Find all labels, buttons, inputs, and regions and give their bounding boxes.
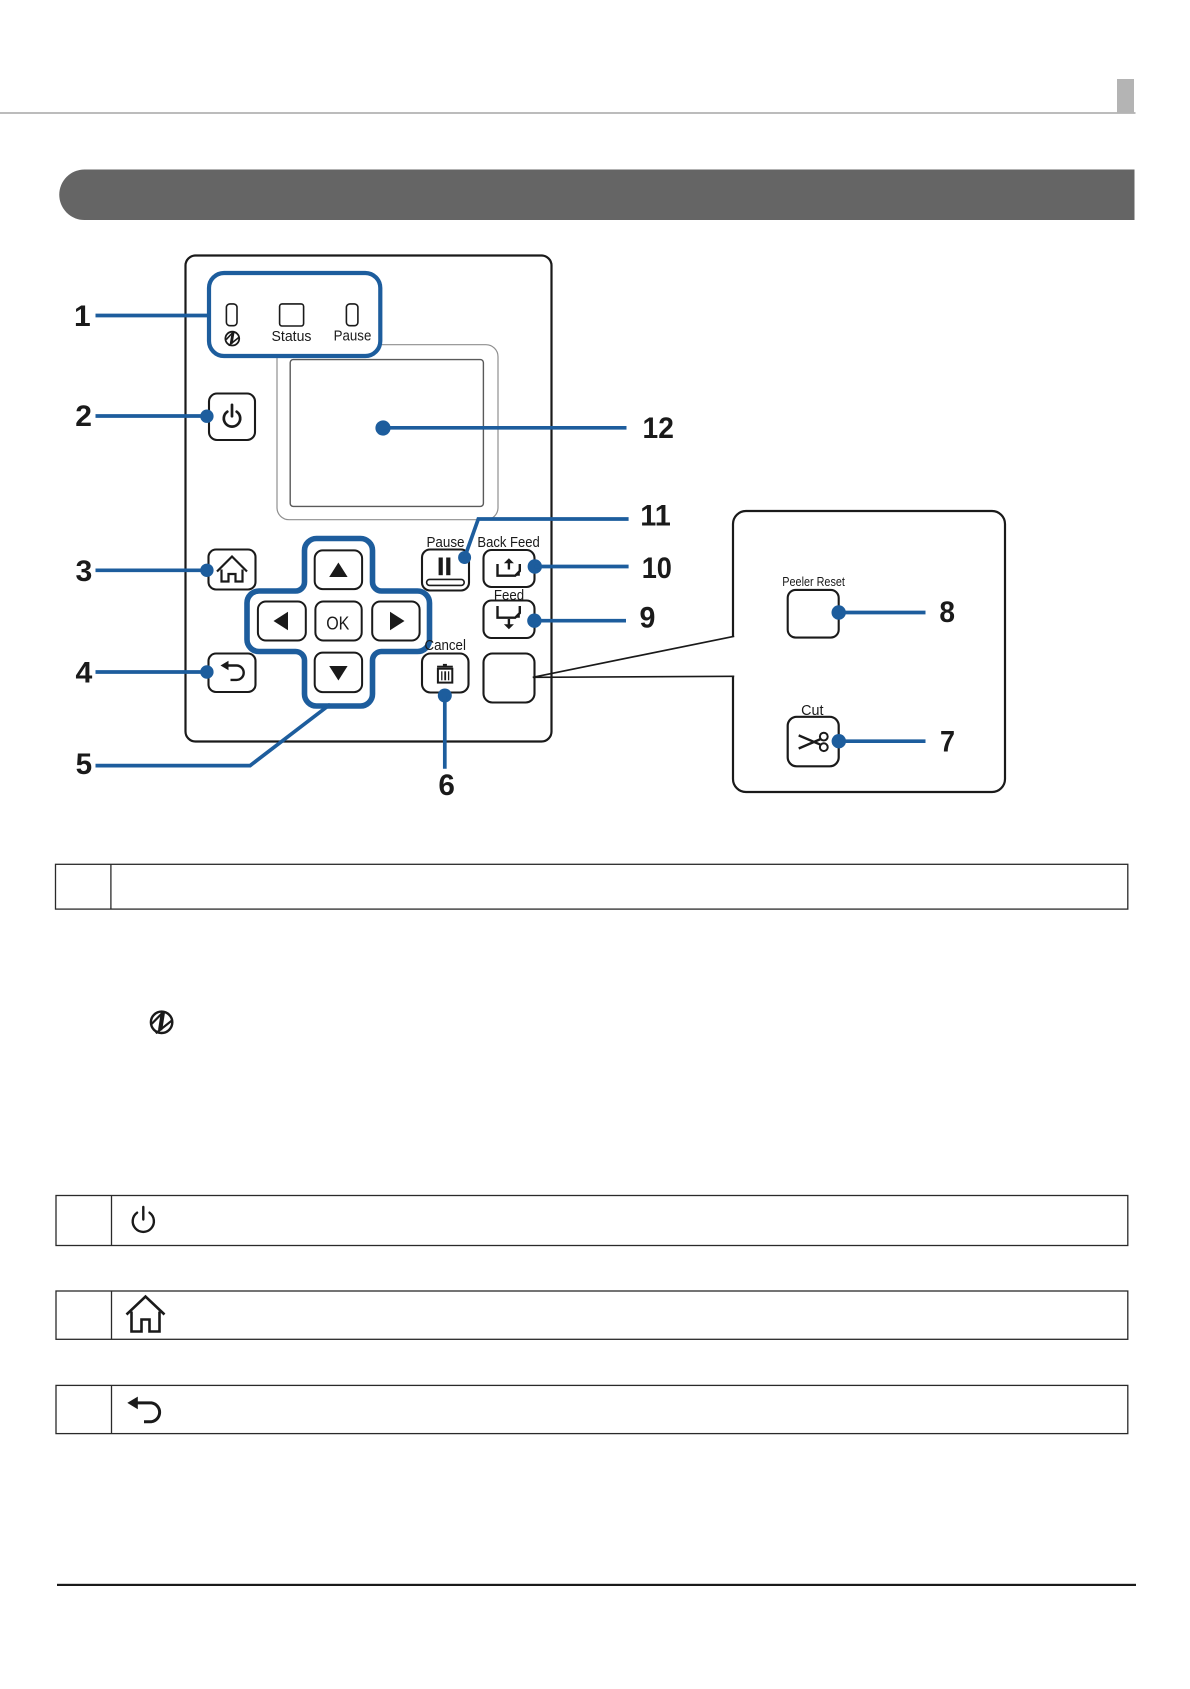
right button	[372, 602, 419, 641]
leader 9	[527, 614, 541, 628]
LED group outline	[209, 273, 380, 356]
power LED mark	[225, 332, 239, 346]
back icon	[221, 661, 244, 680]
svg-text:9: 9	[640, 602, 656, 635]
power button	[209, 394, 255, 441]
svg-text:6: 6	[438, 769, 455, 802]
table row 3	[56, 1291, 1128, 1339]
top-right tab	[1117, 79, 1134, 113]
table row 1	[56, 864, 1128, 909]
svg-text:Peeler Reset: Peeler Reset	[782, 574, 845, 589]
footer rule	[57, 1584, 1136, 1586]
svg-text:5: 5	[76, 748, 93, 781]
svg-text:Back Feed: Back Feed	[477, 535, 540, 551]
feed icon	[498, 606, 520, 625]
table row 4	[56, 1385, 1128, 1433]
svg-text:10: 10	[642, 552, 672, 585]
up button	[315, 550, 362, 589]
row2 power icon	[133, 1207, 154, 1232]
trash icon	[437, 664, 453, 683]
header bar	[59, 170, 1134, 221]
leader 12	[375, 420, 390, 435]
leader 7	[832, 734, 846, 748]
svg-text:Status: Status	[272, 329, 312, 345]
svg-text:Cancel: Cancel	[425, 638, 466, 654]
leader 2	[96, 414, 207, 418]
callout line lower	[533, 676, 734, 677]
leader 8	[832, 605, 846, 619]
down button	[315, 653, 362, 693]
standalone power mark	[151, 1012, 172, 1034]
power LED	[226, 304, 237, 326]
feed button	[484, 601, 535, 639]
back button	[209, 654, 256, 693]
leader 1	[96, 314, 211, 318]
leader 5	[96, 704, 331, 765]
row3 home icon	[127, 1297, 165, 1332]
svg-text:Pause: Pause	[426, 535, 464, 551]
home icon	[217, 557, 247, 582]
LCD screen	[290, 360, 483, 507]
svg-text:Feed: Feed	[494, 588, 524, 604]
row4 back icon	[127, 1397, 159, 1422]
cancel button	[422, 654, 469, 693]
svg-text:Pause: Pause	[334, 329, 372, 345]
table row 2	[56, 1196, 1128, 1246]
svg-text:7: 7	[940, 726, 955, 759]
svg-text:1: 1	[74, 300, 91, 333]
svg-text:OK: OK	[326, 612, 350, 633]
inset panel	[733, 511, 1005, 792]
status LED	[280, 304, 304, 326]
back feed button	[484, 550, 535, 587]
top rule	[0, 112, 1136, 114]
svg-text:11: 11	[640, 499, 671, 532]
left button	[258, 602, 306, 641]
svg-text:4: 4	[76, 657, 93, 690]
peeler reset blank button	[484, 654, 535, 703]
leader 6	[438, 689, 452, 703]
leader 3	[96, 568, 207, 572]
power button icon	[224, 405, 240, 427]
leader 4	[96, 670, 207, 674]
svg-text:2: 2	[75, 400, 92, 433]
OK button	[315, 602, 361, 641]
LCD outer bezel	[277, 345, 498, 520]
back feed icon	[498, 563, 520, 576]
svg-text:3: 3	[76, 555, 93, 588]
svg-text:12: 12	[643, 412, 674, 445]
leader 11	[458, 551, 471, 564]
main panel	[186, 256, 552, 742]
keypad cross outline	[247, 539, 430, 707]
pause LED	[346, 304, 358, 326]
leader 10	[528, 559, 542, 573]
home button	[209, 550, 256, 590]
scissors icon	[799, 733, 828, 751]
pause icon	[427, 558, 465, 586]
pause button	[422, 550, 469, 591]
cut button	[788, 717, 839, 767]
svg-text:8: 8	[939, 596, 955, 629]
svg-text:Cut: Cut	[801, 703, 823, 719]
peeler reset button	[788, 590, 839, 638]
callout line upper	[533, 636, 734, 677]
